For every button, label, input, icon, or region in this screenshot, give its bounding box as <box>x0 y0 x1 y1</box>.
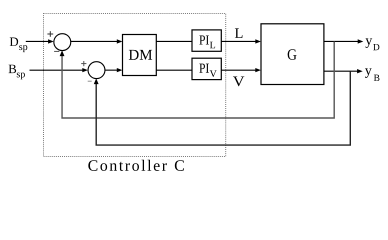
node yD label <box>365 38 379 50</box>
block PI_L <box>192 30 221 51</box>
wire Dsp to summer 1 <box>26 40 49 42</box>
arrowhead yB feedback into summer 2 <box>94 78 99 84</box>
node V label <box>233 77 244 87</box>
node Bsp label <box>9 65 25 80</box>
block PI_L label <box>199 35 215 48</box>
wire Bsp to summer 2 <box>30 69 84 71</box>
node L label <box>235 28 243 37</box>
wire DM to PI_L <box>156 40 192 42</box>
summer 2 plus sign <box>81 61 86 66</box>
wire DM to PI_V <box>156 69 192 71</box>
summer 1 minus sign <box>54 50 59 52</box>
node Dsp label <box>10 38 28 53</box>
summing junction 1 (D loop) <box>54 34 71 51</box>
wire summer 1 to DM <box>71 40 118 42</box>
block DM (decoupler) <box>123 35 157 76</box>
wire PI_L to G (node L) <box>221 40 256 42</box>
wire yD feedback path (tap down and left to summer 1) <box>62 41 334 118</box>
block PI_V label <box>199 64 216 77</box>
block G label <box>288 49 297 60</box>
dashed controller boundary box <box>44 14 226 157</box>
summer 1 plus sign <box>47 31 53 37</box>
block PI_V <box>192 58 221 79</box>
wire PI_V to G (node V) <box>221 69 256 71</box>
summing junction 2 (B loop) <box>88 62 105 79</box>
wire yB feedback path (tap down and left to summer 2) <box>96 71 350 145</box>
arrowhead yD feedback into summer 1 <box>60 50 65 56</box>
node yB label <box>365 68 380 81</box>
block G (plant) <box>261 24 324 85</box>
label Controller C <box>88 160 184 171</box>
wire G to output yD <box>324 40 359 42</box>
summer 2 minus sign <box>88 80 92 82</box>
wire summer 2 to DM <box>105 69 118 71</box>
block DM label <box>129 50 152 60</box>
wire G to output yB <box>324 70 358 72</box>
